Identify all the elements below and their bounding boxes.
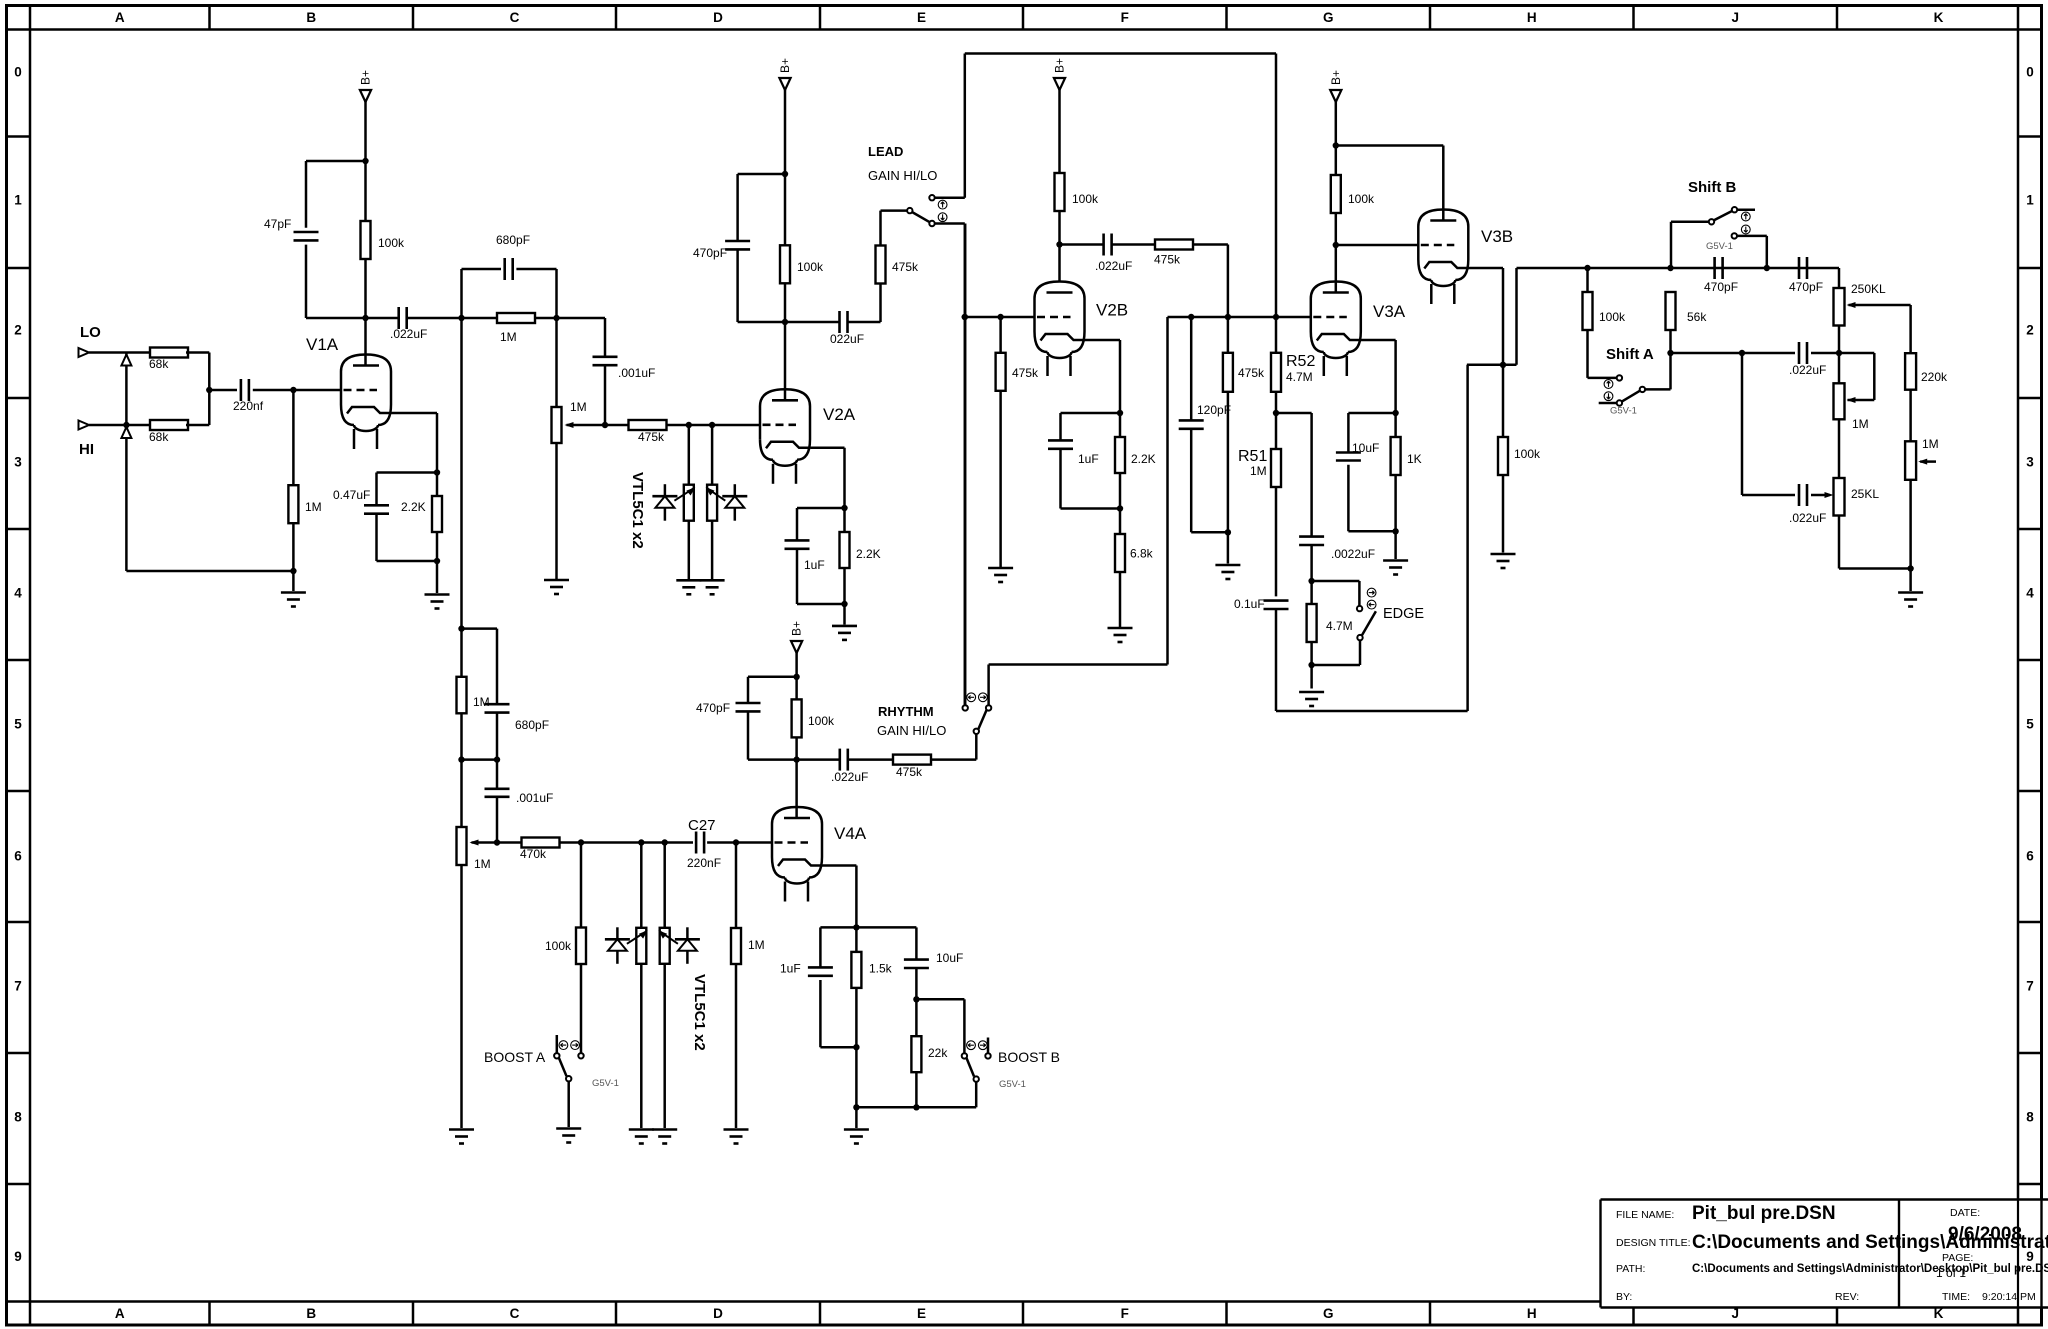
svg-text:250KL: 250KL [1851, 282, 1886, 296]
svg-text:22k: 22k [928, 1046, 948, 1060]
svg-text:TIME:: TIME: [1942, 1291, 1970, 1303]
svg-text:BOOST B: BOOST B [998, 1049, 1060, 1065]
svg-text:EDGE: EDGE [1383, 606, 1424, 622]
svg-text:470pF: 470pF [1704, 280, 1738, 294]
svg-text:J: J [1731, 10, 1739, 25]
svg-text:F: F [1121, 10, 1129, 25]
svg-text:680pF: 680pF [515, 718, 549, 732]
svg-text:25KL: 25KL [1851, 487, 1879, 501]
svg-text:G: G [1323, 10, 1334, 25]
svg-text:7: 7 [2026, 979, 2034, 994]
svg-text:1: 1 [2026, 193, 2034, 208]
svg-text:1M: 1M [500, 330, 517, 344]
svg-text:V1A: V1A [306, 335, 339, 354]
svg-text:H: H [1527, 10, 1537, 25]
svg-text:E: E [917, 10, 926, 25]
svg-text:HI: HI [79, 441, 94, 458]
svg-text:5: 5 [2026, 717, 2034, 732]
svg-text:100k: 100k [1348, 192, 1375, 206]
svg-text:9: 9 [14, 1249, 22, 1264]
svg-text:.022uF: .022uF [390, 327, 427, 341]
svg-text:.022uF: .022uF [831, 770, 868, 784]
svg-text:1M: 1M [305, 500, 322, 514]
svg-text:FILE NAME:: FILE NAME: [1616, 1209, 1674, 1221]
svg-text:1.5k: 1.5k [869, 962, 893, 976]
svg-text:4: 4 [14, 586, 22, 601]
svg-text:A: A [115, 1306, 125, 1321]
svg-text:1M: 1M [748, 938, 765, 952]
svg-text:470pF: 470pF [693, 246, 727, 260]
svg-text:BY:: BY: [1616, 1291, 1632, 1303]
svg-text:LEAD: LEAD [868, 144, 903, 159]
svg-text:2: 2 [2026, 323, 2034, 338]
svg-text:1uF: 1uF [1078, 452, 1099, 466]
svg-text:475k: 475k [1012, 366, 1039, 380]
svg-text:B+: B+ [778, 58, 792, 73]
svg-text:120pF: 120pF [1197, 403, 1231, 417]
svg-text:E: E [917, 1306, 926, 1321]
svg-text:D: D [713, 1306, 723, 1321]
svg-text:475k: 475k [1238, 366, 1265, 380]
svg-text:1M: 1M [1922, 437, 1939, 451]
svg-text:.022uF: .022uF [1789, 363, 1826, 377]
svg-text:B+: B+ [1053, 58, 1067, 73]
svg-text:6.8k: 6.8k [1130, 547, 1154, 561]
svg-text:C:\Documents and Settings\Admi: C:\Documents and Settings\Administrator\… [1692, 1263, 2048, 1275]
svg-text:1M: 1M [1250, 464, 1267, 478]
svg-text:1M: 1M [570, 400, 587, 414]
svg-text:8: 8 [14, 1110, 22, 1125]
svg-text:2.2K: 2.2K [401, 500, 426, 514]
svg-text:475k: 475k [638, 430, 665, 444]
svg-text:1K: 1K [1407, 452, 1422, 466]
svg-text:100k: 100k [378, 236, 405, 250]
svg-text:C: C [510, 10, 520, 25]
svg-text:DESIGN TITLE:: DESIGN TITLE: [1616, 1237, 1691, 1249]
svg-text:68k: 68k [149, 430, 169, 444]
svg-text:Pit_bul pre.DSN: Pit_bul pre.DSN [1692, 1203, 1836, 1224]
svg-text:470k: 470k [520, 847, 547, 861]
svg-text:0: 0 [14, 65, 22, 80]
svg-text:4.7M: 4.7M [1326, 619, 1353, 633]
svg-text:220nf: 220nf [233, 399, 264, 413]
svg-text:1: 1 [14, 193, 22, 208]
svg-text:G5V-1: G5V-1 [1610, 406, 1637, 417]
svg-text:.022uF: .022uF [1095, 259, 1132, 273]
svg-text:100k: 100k [545, 939, 572, 953]
svg-text:H: H [1527, 1306, 1537, 1321]
svg-text:022uF: 022uF [830, 332, 864, 346]
svg-text:B: B [306, 1306, 316, 1321]
svg-text:GAIN HI/LO: GAIN HI/LO [877, 723, 946, 738]
svg-text:100k: 100k [1514, 447, 1541, 461]
svg-text:100k: 100k [1599, 310, 1626, 324]
svg-text:680pF: 680pF [496, 233, 530, 247]
svg-text:4.7M: 4.7M [1286, 370, 1313, 384]
svg-text:0.47uF: 0.47uF [333, 488, 370, 502]
svg-text:G5V-1: G5V-1 [1706, 241, 1733, 252]
svg-text:475k: 475k [1154, 253, 1181, 267]
svg-text:2: 2 [14, 323, 22, 338]
svg-text:G: G [1323, 1306, 1334, 1321]
svg-text:100k: 100k [808, 714, 835, 728]
svg-text:VTL5C1 x2: VTL5C1 x2 [629, 472, 646, 549]
svg-text:1M: 1M [474, 857, 491, 871]
svg-text:C27: C27 [688, 817, 716, 834]
svg-text:470pF: 470pF [696, 701, 730, 715]
svg-text:10uF: 10uF [936, 951, 963, 965]
svg-text:F: F [1121, 1306, 1129, 1321]
svg-text:68k: 68k [149, 357, 169, 371]
svg-text:47pF: 47pF [264, 217, 291, 231]
svg-text:B+: B+ [1329, 70, 1343, 85]
svg-text:8: 8 [2026, 1110, 2034, 1125]
svg-text:VTL5C1 x2: VTL5C1 x2 [691, 974, 708, 1051]
svg-text:B+: B+ [359, 70, 373, 85]
svg-text:.001uF: .001uF [618, 366, 655, 380]
svg-text:LO: LO [80, 324, 101, 341]
svg-text:1 of 1: 1 of 1 [1936, 1266, 1966, 1280]
svg-text:2.2K: 2.2K [856, 547, 881, 561]
svg-text:R51: R51 [1238, 448, 1267, 465]
svg-text:G5V-1: G5V-1 [999, 1079, 1026, 1090]
svg-text:6: 6 [2026, 849, 2034, 864]
svg-text:3: 3 [2026, 455, 2034, 470]
svg-text:PATH:: PATH: [1616, 1263, 1645, 1275]
svg-text:3: 3 [14, 455, 22, 470]
svg-text:GAIN HI/LO: GAIN HI/LO [868, 168, 937, 183]
svg-text:B+: B+ [790, 621, 804, 636]
svg-text:PAGE:: PAGE: [1942, 1252, 1973, 1264]
svg-text:BOOST A: BOOST A [484, 1049, 546, 1065]
svg-text:REV:: REV: [1835, 1291, 1859, 1303]
svg-text:V4A: V4A [834, 824, 867, 843]
svg-text:B: B [306, 10, 316, 25]
svg-text:475k: 475k [896, 765, 923, 779]
svg-text:470pF: 470pF [1789, 280, 1823, 294]
svg-text:Shift A: Shift A [1606, 346, 1654, 363]
svg-text:G5V-1: G5V-1 [592, 1078, 619, 1089]
svg-text:2.2K: 2.2K [1131, 452, 1156, 466]
svg-text:100k: 100k [1072, 192, 1099, 206]
svg-text:V2A: V2A [823, 405, 856, 424]
svg-text:1uF: 1uF [804, 558, 825, 572]
svg-text:C: C [510, 1306, 520, 1321]
svg-text:.0022uF: .0022uF [1331, 547, 1375, 561]
svg-text:100k: 100k [797, 260, 824, 274]
svg-text:9/6/2008: 9/6/2008 [1948, 1224, 2022, 1245]
svg-text:DATE:: DATE: [1950, 1207, 1980, 1219]
svg-text:56k: 56k [1687, 310, 1707, 324]
svg-text:1M: 1M [473, 695, 490, 709]
svg-text:K: K [1934, 10, 1944, 25]
svg-text:475k: 475k [892, 260, 919, 274]
svg-text:0: 0 [2026, 65, 2034, 80]
svg-text:R52: R52 [1286, 353, 1315, 370]
svg-text:220k: 220k [1921, 370, 1948, 384]
svg-text:Shift B: Shift B [1688, 179, 1736, 196]
svg-text:D: D [713, 10, 723, 25]
svg-text:9:20:14 PM: 9:20:14 PM [1982, 1291, 2036, 1303]
svg-text:V3A: V3A [1373, 302, 1406, 321]
svg-text:.001uF: .001uF [516, 791, 553, 805]
svg-text:0.1uF: 0.1uF [1234, 597, 1265, 611]
svg-text:7: 7 [14, 979, 22, 994]
svg-text:1M: 1M [1852, 417, 1869, 431]
svg-text:10uF: 10uF [1352, 441, 1379, 455]
svg-text:220nF: 220nF [687, 856, 721, 870]
svg-text:4: 4 [2026, 586, 2034, 601]
svg-text:6: 6 [14, 849, 22, 864]
svg-text:1uF: 1uF [780, 962, 801, 976]
svg-text:RHYTHM: RHYTHM [878, 704, 934, 719]
svg-text:V3B: V3B [1481, 227, 1513, 246]
svg-text:A: A [115, 10, 125, 25]
svg-text:V2B: V2B [1096, 301, 1128, 320]
svg-text:.022uF: .022uF [1789, 511, 1826, 525]
svg-text:5: 5 [14, 717, 22, 732]
